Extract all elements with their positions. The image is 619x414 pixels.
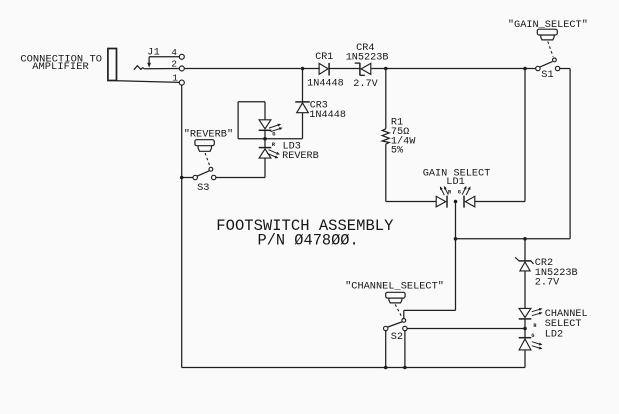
wire R1 to LD1 [386, 144, 436, 201]
label GAIN SELECT [423, 168, 491, 180]
wire node B to R1 [385, 69, 387, 129]
zener diode CR2 [515, 257, 533, 271]
resistor R1 [382, 129, 389, 144]
wire node A to CR1 [303, 68, 320, 70]
wire LD3 node horizontal [238, 138, 302, 140]
switch S2 right contact [403, 326, 407, 330]
label S3 [197, 182, 209, 194]
svg-text:"REVERB": "REVERB" [184, 129, 233, 141]
switch S3 left contact [193, 175, 197, 179]
LED LD3 green element [259, 120, 272, 139]
wire jack sleeve to pin 1 [117, 81, 180, 83]
label CR2 value 1N5223B [535, 268, 578, 279]
label LD1 left R [448, 190, 452, 196]
junction node A [301, 67, 305, 71]
svg-text:LD2: LD2 [545, 330, 563, 341]
label R1 value 75 ohm [391, 127, 409, 138]
label LD2 green G [531, 333, 534, 339]
junction node B [384, 67, 388, 71]
switch S1 lever [540, 62, 553, 68]
J1 switch contact arrow [147, 57, 179, 68]
wire node C to S1 [525, 68, 536, 70]
junction LD1 tap on rail [454, 237, 458, 241]
wire node A down to CR3 [302, 69, 304, 102]
wire LD1 centre tap down [455, 202, 457, 239]
label LD2 [545, 330, 563, 341]
svg-text:REVERB: REVERB [282, 151, 319, 162]
label LD2 red R [533, 323, 537, 329]
svg-text:G: G [272, 132, 275, 138]
label CR3 [310, 101, 328, 112]
switch S2 left contact [384, 326, 388, 330]
title FOOTSWITCH ASSEMBLY [216, 217, 394, 235]
wire CR1 to CR4 [329, 68, 359, 70]
svg-text:S1: S1 [541, 69, 553, 81]
wire jack tip to pin 2 [144, 68, 179, 70]
button CHANNEL plunger dashed link [395, 304, 402, 317]
junction LD1 centre [454, 200, 458, 204]
label REVERB quoted [184, 129, 233, 141]
wire pin2 to node A [184, 68, 300, 70]
label CR4 voltage 2.7V [353, 79, 378, 90]
switch S3 right contact [212, 175, 216, 179]
wire S2 left contact to rail [385, 331, 387, 368]
svg-text:2.7V: 2.7V [353, 79, 378, 90]
LED LD2 red element [519, 308, 532, 328]
label CONNECTION TO AMPLIFIER [20, 53, 102, 73]
switch S2 pole [402, 319, 406, 323]
wire LD1 to right branch [475, 201, 525, 203]
label S2 [391, 331, 403, 343]
label LD3 red R [272, 142, 276, 148]
junction CR2 on rail [523, 237, 527, 241]
svg-text:CR1: CR1 [315, 52, 333, 63]
wire CR2 to LD2 [524, 271, 526, 308]
footswitch button REVERB cap [195, 140, 214, 146]
label CR3 value 1N4448 [309, 110, 346, 121]
label LD3 [283, 142, 301, 153]
wire node B to node C [386, 68, 525, 70]
junction S3 on left bus [180, 176, 184, 180]
junction S2 left on rail [384, 366, 388, 370]
button GAIN plunger dashed link [548, 42, 553, 57]
footswitch button REVERB base [198, 146, 211, 152]
label CHANNEL [545, 309, 588, 320]
wire LD1 tap to S2 pole [404, 239, 456, 318]
LED LD3 green emission arrows [269, 124, 283, 132]
label S1 [541, 69, 553, 81]
switch S2 lever [388, 322, 402, 327]
wire S2 right contact to LD2 [407, 328, 525, 330]
switch S1 pole [553, 58, 557, 62]
wire left bus to S3 [182, 177, 193, 179]
label R1 [391, 118, 403, 129]
footswitch button CHANNEL base [389, 298, 402, 303]
label SELECT [545, 319, 582, 330]
svg-text:S2: S2 [391, 331, 403, 343]
svg-text:G: G [458, 190, 461, 196]
svg-text:4: 4 [171, 47, 177, 58]
button REVERB plunger dashed link [205, 153, 210, 166]
label CR2 voltage 2.7V [535, 278, 560, 289]
label CR4 [356, 43, 374, 54]
wire CR3 to LD3 node [302, 113, 304, 139]
title part number [258, 231, 359, 249]
wire pin1 left bus down [181, 85, 183, 368]
label J1 [147, 48, 160, 59]
svg-text:G: G [531, 333, 534, 339]
svg-text:P/N Ø478ØØ.: P/N Ø478ØØ. [258, 231, 359, 249]
svg-text:S3: S3 [197, 182, 209, 194]
svg-text:SELECT: SELECT [545, 319, 582, 330]
junction LD3 centre [263, 137, 267, 141]
wire LD3 anode loop [238, 102, 265, 139]
zener diode CR4 [355, 63, 371, 76]
diode CR3 [295, 102, 309, 113]
wire S1 to right vertical [560, 68, 570, 70]
LED LD3 red element [259, 139, 272, 158]
LED LD2 green emission arrows [532, 342, 543, 350]
LED LD2 red emission arrows [532, 308, 543, 316]
diode CR1 [319, 63, 329, 76]
junction node C [523, 67, 527, 71]
label LD3 REVERB [282, 151, 319, 162]
svg-text:AMPLIFIER: AMPLIFIER [32, 61, 89, 73]
wire rail down to CR2 [524, 239, 526, 261]
wire LD2 to bottom rail [524, 350, 526, 367]
label CR4 value 1N5223B [346, 53, 389, 64]
label LD3 green G [272, 132, 275, 138]
label R1 tolerance [391, 145, 404, 156]
switch S3 pole [209, 167, 213, 171]
wire LD3 to S3 [216, 158, 265, 177]
svg-text:"CHANNEL_SELECT": "CHANNEL_SELECT" [345, 280, 444, 292]
label LD1 [446, 176, 464, 188]
switch S1 left contact [536, 66, 540, 70]
label LD1 right G [458, 190, 461, 196]
J1 pin 1 [172, 72, 184, 85]
svg-text:5%: 5% [391, 145, 404, 156]
J1 pin 4 [171, 47, 184, 59]
junction LD2 centre [523, 327, 527, 331]
label CR2 [535, 258, 553, 269]
svg-text:1N4448: 1N4448 [307, 79, 344, 90]
LED LD3 red emission arrows [267, 150, 280, 159]
footswitch button CHANNEL cap [386, 292, 405, 298]
svg-text:2.7V: 2.7V [535, 278, 560, 289]
junction S2 right on rail [403, 366, 407, 370]
wire right branch node C to LD1 [524, 69, 526, 202]
svg-text:2: 2 [171, 59, 177, 70]
label GAIN_SELECT quoted [508, 19, 588, 31]
LED LD1 left element [436, 196, 447, 208]
wire CR4 to node B [371, 68, 385, 70]
connector J1 tip contact squiggle [134, 66, 144, 70]
wire S2 right contact down to rail [404, 331, 406, 368]
label CR1 value 1N4448 [307, 79, 344, 90]
label CR1 [315, 52, 333, 63]
switch S1 right contact [555, 66, 559, 70]
footswitch button GAIN base [541, 35, 554, 40]
LED LD1 left emission arrows [440, 186, 448, 195]
footswitch button GAIN cap [537, 29, 557, 35]
svg-text:1N5223B: 1N5223B [346, 53, 389, 64]
switch S3 lever [197, 171, 209, 176]
label CHANNEL_SELECT quoted [345, 280, 444, 292]
LED LD1 right element [464, 196, 475, 208]
wire bottom rail [182, 367, 525, 369]
J1 pin 2 [171, 59, 184, 71]
wire mid rail [456, 238, 571, 240]
connector J1 jack plug sleeve [108, 49, 117, 81]
svg-text:1N4448: 1N4448 [309, 110, 346, 121]
wire rightmost vertical [569, 69, 571, 239]
svg-text:LD1: LD1 [446, 176, 464, 188]
LED LD1 right emission arrows [462, 186, 470, 195]
svg-text:1: 1 [172, 72, 178, 83]
label R1 wattage [391, 135, 416, 147]
LED LD2 green element [519, 329, 532, 350]
